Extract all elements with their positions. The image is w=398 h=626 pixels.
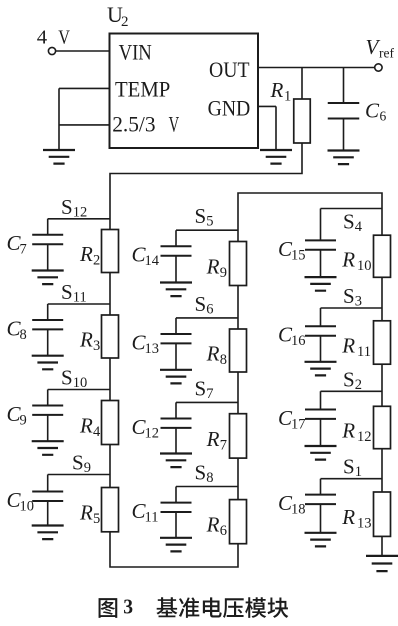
svg-text:C: C	[365, 99, 380, 123]
svg-text:13: 13	[145, 341, 160, 357]
svg-text:10: 10	[357, 258, 372, 274]
svg-text:6: 6	[206, 301, 213, 317]
svg-text:S: S	[72, 451, 84, 475]
svg-text:V: V	[169, 112, 180, 137]
svg-text:12: 12	[357, 429, 372, 445]
svg-text:R: R	[79, 414, 93, 438]
svg-text:S: S	[343, 455, 355, 479]
svg-text:12: 12	[145, 425, 160, 441]
svg-text:9: 9	[20, 412, 27, 428]
svg-text:R: R	[341, 505, 355, 529]
svg-text:OUT: OUT	[209, 57, 250, 82]
svg-text:TEMP: TEMP	[115, 76, 170, 101]
svg-text:R: R	[341, 334, 355, 358]
svg-text:13: 13	[357, 516, 372, 532]
svg-text:V: V	[58, 27, 70, 49]
svg-text:3: 3	[123, 595, 133, 619]
svg-text:4: 4	[355, 219, 363, 235]
svg-text:10: 10	[20, 499, 35, 515]
svg-text:S: S	[195, 376, 207, 400]
svg-text:R: R	[270, 78, 284, 102]
svg-text:3: 3	[93, 338, 100, 354]
svg-text:14: 14	[145, 253, 160, 269]
svg-text:11: 11	[145, 510, 159, 526]
svg-text:S: S	[343, 210, 355, 234]
svg-text:7: 7	[206, 386, 213, 402]
svg-text:S: S	[195, 204, 207, 228]
svg-text:R: R	[79, 501, 93, 525]
svg-text:5: 5	[93, 511, 100, 527]
svg-text:9: 9	[220, 265, 227, 281]
svg-text:9: 9	[84, 460, 91, 476]
svg-text:8: 8	[206, 470, 213, 486]
svg-text:1: 1	[355, 464, 362, 480]
svg-text:R: R	[206, 513, 220, 537]
svg-text:11: 11	[73, 290, 87, 306]
svg-text:S: S	[61, 195, 73, 219]
svg-text:ref: ref	[379, 46, 394, 61]
svg-text:7: 7	[220, 437, 227, 453]
svg-text:15: 15	[291, 247, 306, 263]
svg-text:S: S	[195, 292, 207, 316]
svg-text:R: R	[341, 247, 355, 271]
svg-text:2: 2	[121, 14, 129, 30]
svg-text:8: 8	[220, 352, 227, 368]
svg-text:2.5/3: 2.5/3	[112, 112, 155, 137]
svg-text:18: 18	[291, 502, 306, 518]
svg-text:VIN: VIN	[119, 40, 152, 65]
svg-text:R: R	[206, 342, 220, 366]
svg-text:12: 12	[73, 204, 88, 220]
svg-text:17: 17	[291, 416, 306, 432]
svg-text:S: S	[343, 367, 355, 391]
svg-text:R: R	[79, 328, 93, 352]
svg-text:R: R	[206, 255, 220, 279]
svg-text:S: S	[61, 366, 73, 390]
svg-text:R: R	[79, 242, 93, 266]
svg-text:11: 11	[357, 344, 371, 360]
svg-text:5: 5	[206, 214, 213, 230]
svg-text:4: 4	[37, 27, 47, 49]
svg-text:10: 10	[73, 375, 88, 391]
svg-text:3: 3	[355, 294, 362, 310]
svg-text:1: 1	[284, 89, 291, 105]
svg-text:16: 16	[291, 333, 306, 349]
svg-text:4: 4	[93, 424, 101, 440]
svg-text:2: 2	[93, 253, 100, 269]
svg-text:S: S	[61, 280, 73, 304]
svg-text:8: 8	[20, 327, 27, 343]
svg-text:R: R	[341, 419, 355, 443]
svg-text:S: S	[343, 284, 355, 308]
svg-text:S: S	[195, 461, 207, 485]
svg-text:2: 2	[355, 377, 362, 393]
svg-text:6: 6	[220, 523, 227, 539]
svg-text:R: R	[206, 427, 220, 451]
svg-text:6: 6	[380, 109, 387, 124]
svg-text:GND: GND	[208, 95, 251, 120]
svg-text:7: 7	[20, 242, 27, 258]
